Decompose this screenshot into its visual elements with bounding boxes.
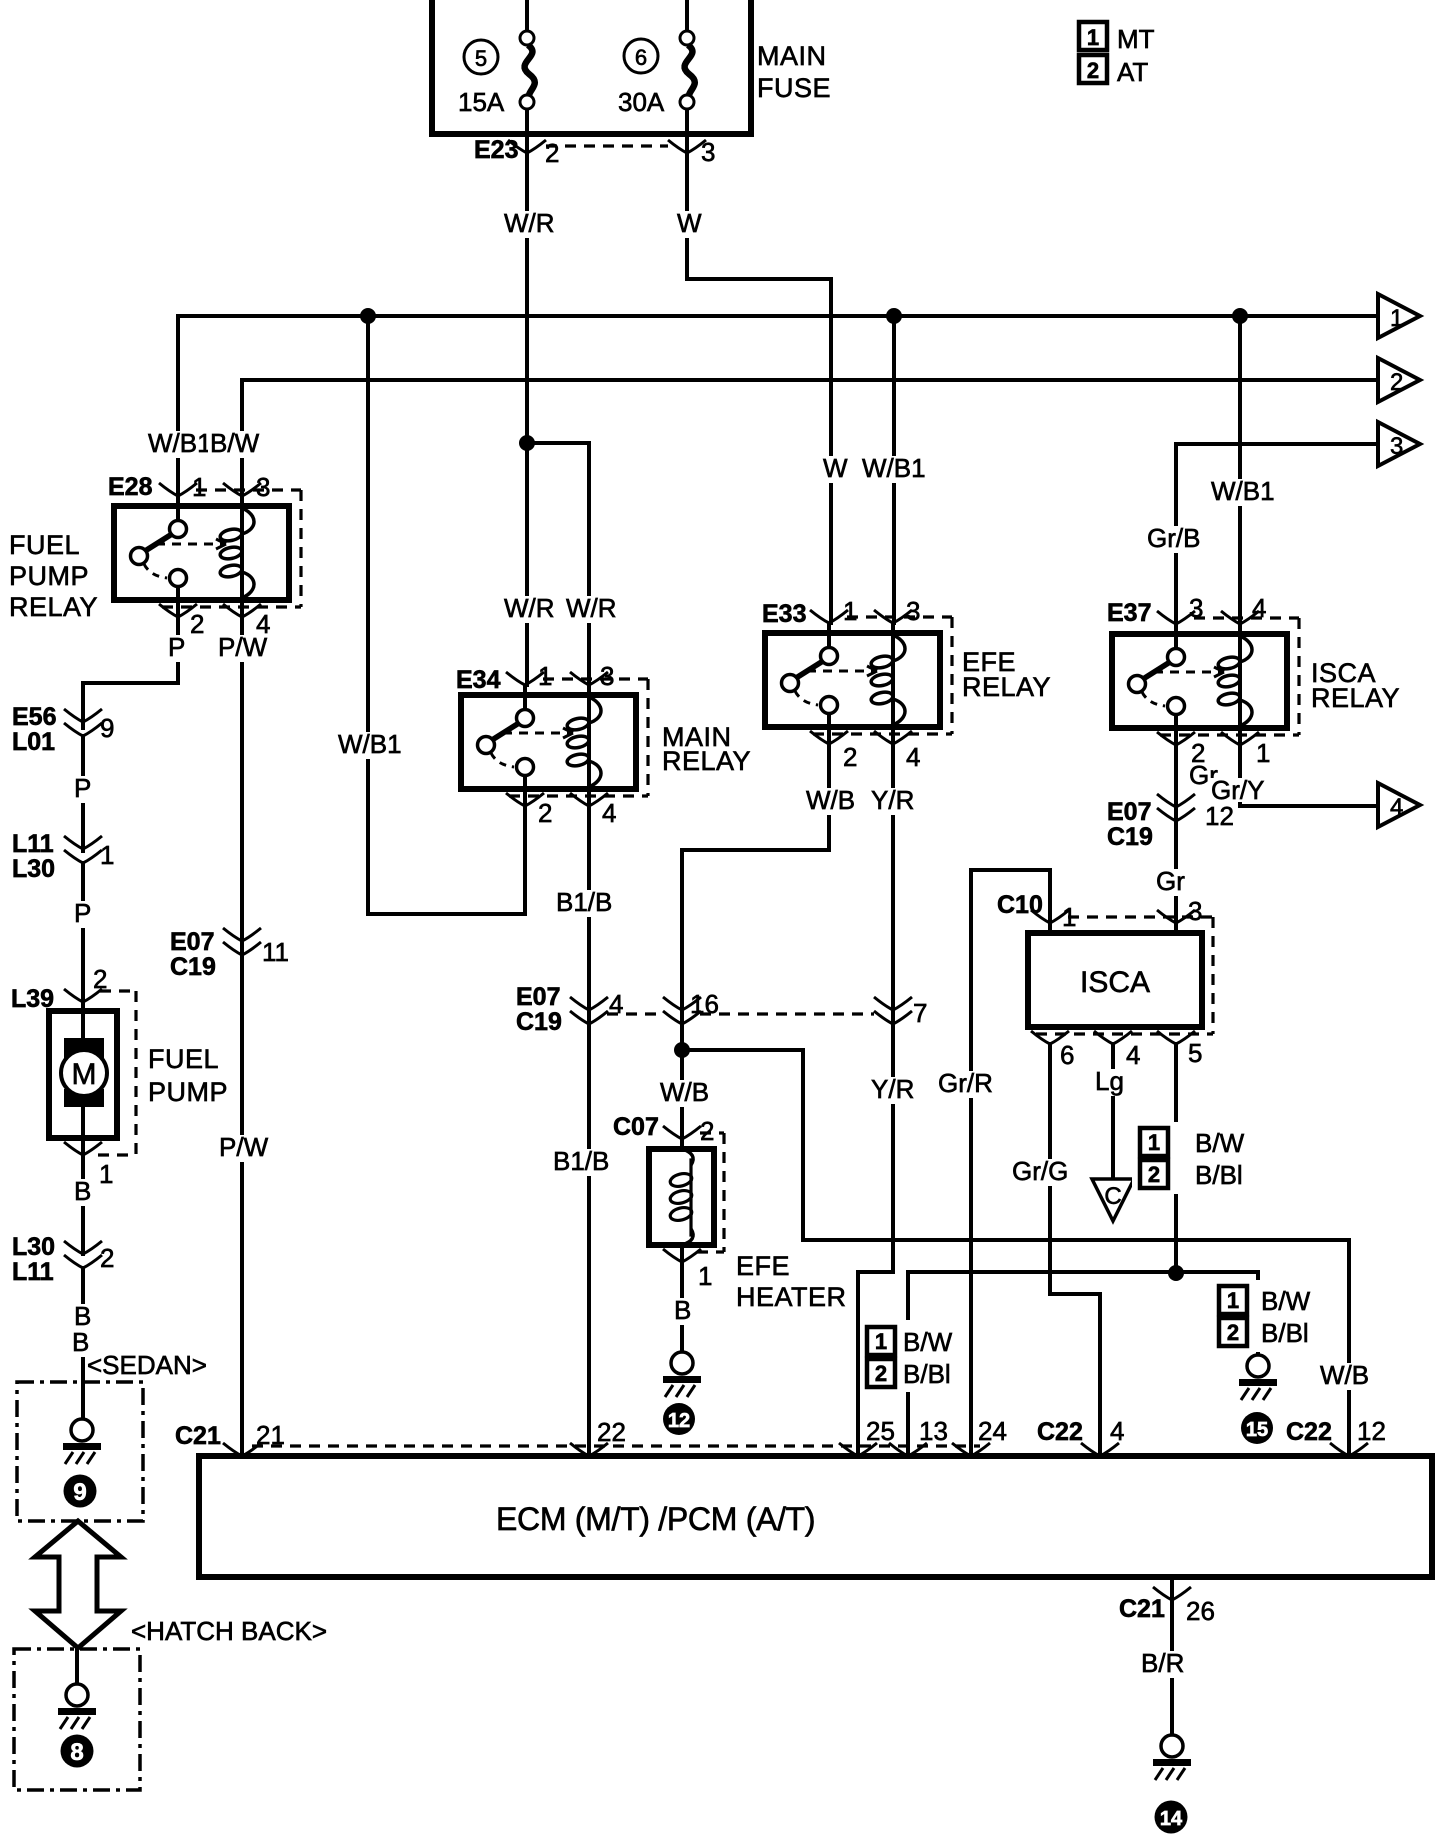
svg-text:1: 1 <box>1227 1288 1239 1313</box>
svg-text:PUMP: PUMP <box>148 1077 228 1107</box>
label block 1 B/W 2 B/Bl at ECM pin 13 <box>860 1320 960 1392</box>
off-page arrow 2 <box>1378 358 1420 402</box>
svg-text:2: 2 <box>545 138 559 168</box>
svg-text:L30: L30 <box>12 855 55 883</box>
svg-text:1: 1 <box>192 472 206 502</box>
svg-text:4: 4 <box>1110 1416 1124 1446</box>
svg-text:W/B1: W/B1 <box>338 729 402 759</box>
wire W/B1 bus1 to main relay pin 2 <box>336 316 525 914</box>
svg-text:E28: E28 <box>108 473 153 501</box>
connector E07 C19 pin 12 <box>1107 794 1234 851</box>
svg-text:15: 15 <box>1246 1419 1268 1441</box>
svg-text:E07: E07 <box>1107 798 1151 826</box>
svg-text:W/R: W/R <box>566 593 617 623</box>
wire B/W B/Bl from ISCA pin 5 to node <box>1174 1044 1178 1274</box>
svg-text:E33: E33 <box>762 600 806 628</box>
svg-text:5: 5 <box>475 46 487 71</box>
svg-text:AT: AT <box>1117 57 1148 87</box>
svg-text:C19: C19 <box>516 1008 562 1036</box>
fuse 5 15A <box>458 31 535 117</box>
node bus1-EFE <box>886 308 902 324</box>
connector L11 L30 pin 1 <box>12 830 114 883</box>
svg-text:15A: 15A <box>458 87 505 117</box>
ground 14 <box>1153 1735 1191 1834</box>
svg-text:B: B <box>674 1295 691 1325</box>
dashed connector line C21/C22 <box>252 1444 980 1447</box>
connector C21 pin 21 <box>175 1420 285 1456</box>
svg-text:W: W <box>823 453 848 483</box>
svg-text:26: 26 <box>1186 1596 1215 1626</box>
off-page arrow 1 <box>1378 294 1420 338</box>
ground 12 <box>663 1352 701 1435</box>
svg-text:<SEDAN>: <SEDAN> <box>87 1350 207 1380</box>
svg-text:C: C <box>1104 1183 1121 1210</box>
svg-text:EFE: EFE <box>736 1251 790 1281</box>
svg-text:W/B: W/B <box>806 785 855 815</box>
legend MT/AT <box>1079 22 1155 87</box>
svg-text:1: 1 <box>1256 738 1270 768</box>
svg-text:2: 2 <box>190 609 204 639</box>
svg-text:2: 2 <box>875 1361 887 1386</box>
wire W/B1 bus1 to EFE relay pin 3 <box>860 316 927 623</box>
node bus1-main relay <box>360 308 376 324</box>
connector C21 pin 13 <box>889 1416 948 1456</box>
svg-text:E56: E56 <box>12 703 56 731</box>
svg-text:1: 1 <box>1390 305 1403 332</box>
svg-text:3: 3 <box>256 472 270 502</box>
svg-text:L30: L30 <box>12 1233 55 1261</box>
svg-text:Gr/G: Gr/G <box>1012 1156 1068 1186</box>
wire W from fuse 6 to EFE relay pin 1 <box>675 110 850 623</box>
svg-text:C07: C07 <box>613 1113 659 1141</box>
svg-text:7: 7 <box>913 998 927 1028</box>
wire P/W from E28 pin 4 to ECM C21-21 <box>216 617 270 1456</box>
svg-text:L11: L11 <box>12 1258 54 1286</box>
wire Gr/Y from E37 pin 1 to arrow 4 <box>1209 745 1378 806</box>
relay E34 main relay <box>456 661 751 828</box>
svg-text:1: 1 <box>99 1159 113 1189</box>
svg-text:8: 8 <box>70 1739 83 1766</box>
svg-text:L11: L11 <box>12 830 54 858</box>
connector L30 L11 pin 2 <box>12 1233 114 1286</box>
svg-text:2: 2 <box>843 742 857 772</box>
svg-text:Gr/B: Gr/B <box>1147 523 1200 553</box>
connector E07 C19 pin 11 <box>170 928 289 981</box>
svg-text:22: 22 <box>597 1417 626 1447</box>
svg-text:B1/B: B1/B <box>553 1146 609 1176</box>
svg-text:1: 1 <box>875 1329 887 1354</box>
relay E33 EFE relay <box>762 596 1051 772</box>
ground 15 <box>1239 1355 1277 1444</box>
svg-text:1: 1 <box>843 596 857 626</box>
svg-text:PUMP: PUMP <box>9 561 89 591</box>
svg-text:30A: 30A <box>618 87 665 117</box>
svg-text:B/W: B/W <box>1195 1128 1245 1158</box>
svg-text:4: 4 <box>602 798 616 828</box>
connector C22 pin 12 <box>1286 1416 1386 1456</box>
svg-text:W/R: W/R <box>504 208 555 238</box>
connector L39 pin 2 <box>11 964 107 1013</box>
svg-text:P/W: P/W <box>218 632 268 662</box>
connector E07 C19 pin 7 <box>874 997 927 1028</box>
svg-text:W/B1: W/B1 <box>148 428 212 458</box>
wire W/R branch to main relay pin 3 <box>502 443 619 685</box>
svg-text:W/B: W/B <box>660 1077 709 1107</box>
svg-text:9: 9 <box>100 713 114 743</box>
wire W/B from E33 pin 2 to EFE heater <box>658 744 857 1149</box>
svg-text:5: 5 <box>1188 1038 1202 1068</box>
ground 9 sedan <box>63 1419 101 1508</box>
svg-text:W/B1: W/B1 <box>862 453 926 483</box>
fuel pump M1 <box>49 991 228 1155</box>
svg-text:B/W: B/W <box>210 428 260 458</box>
wire P from E28 pin 2 <box>83 617 187 728</box>
wire W/R from fuse 5 to main relay pin 1 <box>502 110 557 685</box>
svg-text:B/Bl: B/Bl <box>903 1359 951 1389</box>
relay E37 ISCA relay <box>1107 593 1400 768</box>
svg-text:RELAY: RELAY <box>662 746 751 776</box>
svg-text:B1/B: B1/B <box>556 887 612 917</box>
svg-text:1: 1 <box>698 1261 712 1291</box>
svg-text:MT: MT <box>1117 24 1155 54</box>
connector E23 pin 2 <box>474 136 559 168</box>
svg-text:14: 14 <box>1160 1808 1183 1830</box>
svg-text:25: 25 <box>866 1416 895 1446</box>
svg-text:1: 1 <box>100 840 114 870</box>
svg-text:3: 3 <box>1390 433 1403 460</box>
connector C22 pin 4 <box>1037 1416 1124 1456</box>
svg-text:B/R: B/R <box>1141 1648 1184 1678</box>
svg-text:3: 3 <box>1188 896 1202 926</box>
wire B1/B from E34 pin 4 to ECM C21-22 <box>551 806 614 1456</box>
wire Gr/G from ISCA pin 6 to ECM C22-4 <box>1010 1044 1100 1456</box>
sedan option box <box>17 1350 207 1521</box>
connector C21 pin 26 <box>1119 1587 1215 1626</box>
svg-text:Y/R: Y/R <box>871 1074 914 1104</box>
svg-text:3: 3 <box>701 137 715 167</box>
connector C07 pin 1 <box>663 1249 712 1291</box>
connector E07 C19 pin 16 <box>663 989 719 1024</box>
svg-text:W/B1: W/B1 <box>1211 476 1275 506</box>
svg-text:Y/R: Y/R <box>871 785 914 815</box>
svg-text:3: 3 <box>906 596 920 626</box>
svg-text:MAIN: MAIN <box>757 41 827 71</box>
svg-text:B/W: B/W <box>903 1327 953 1357</box>
svg-text:C19: C19 <box>1107 823 1153 851</box>
off-page arrow 4 <box>1378 783 1420 827</box>
bus wire 3 <box>1145 444 1378 623</box>
svg-text:4: 4 <box>906 742 920 772</box>
wire P to fuel pump <box>72 863 93 1038</box>
connector C10 pin 1 <box>997 891 1076 932</box>
node W/B junction <box>674 1042 690 1058</box>
svg-text:W/B: W/B <box>1320 1360 1369 1390</box>
wire Y/R from E33 pin 4 to ECM pin 25 <box>858 744 916 1456</box>
svg-text:RELAY: RELAY <box>9 592 98 622</box>
connector ISCA pin 5 <box>1157 1031 1202 1068</box>
svg-text:Gr: Gr <box>1156 866 1185 896</box>
dashed connector line E07/C19 <box>607 1012 874 1015</box>
relay E28 fuel pump relay <box>9 472 301 639</box>
wire B to sedan ground <box>70 1268 93 1419</box>
svg-text:9: 9 <box>73 1479 86 1506</box>
svg-text:B/Bl: B/Bl <box>1261 1318 1309 1348</box>
wire B/R from ECM C21-26 to ground 14 <box>1139 1577 1186 1735</box>
wire net pin13 to ground 15 <box>908 1272 1258 1456</box>
svg-text:16: 16 <box>690 989 719 1019</box>
svg-text:3: 3 <box>1189 593 1203 623</box>
svg-text:HEATER: HEATER <box>736 1282 847 1312</box>
svg-text:2: 2 <box>1390 369 1403 396</box>
svg-text:2: 2 <box>538 798 552 828</box>
label block 1 B/W 2 B/Bl at ISCA pin 5 <box>1132 1122 1248 1194</box>
connector E23 pin 3 <box>668 137 715 167</box>
svg-text:6: 6 <box>635 45 647 70</box>
svg-text:ECM (M/T) /PCM (A/T): ECM (M/T) /PCM (A/T) <box>496 1501 815 1537</box>
svg-text:Lg: Lg <box>1095 1066 1124 1096</box>
double arrow sedan/hatchback <box>35 1521 121 1648</box>
bus wire 2 <box>208 380 1378 496</box>
hatch back option box <box>14 1616 327 1790</box>
bus wire 1 <box>146 316 1378 496</box>
svg-text:E34: E34 <box>456 666 501 694</box>
svg-text:<HATCH BACK>: <HATCH BACK> <box>131 1616 327 1646</box>
wire W/B branch to ECM C22-12 <box>682 1050 1371 1456</box>
main fuse box <box>432 0 831 134</box>
EFE heater C07 <box>649 1133 847 1312</box>
svg-text:E37: E37 <box>1107 599 1151 627</box>
svg-text:13: 13 <box>919 1416 948 1446</box>
svg-text:Gr/Y: Gr/Y <box>1211 775 1264 805</box>
svg-text:W/R: W/R <box>504 593 555 623</box>
wire W/B1 bus1 to ISCA relay pin 4 <box>1209 316 1276 623</box>
connector ISCA pin 6 <box>1031 1031 1074 1070</box>
svg-text:P: P <box>168 632 185 662</box>
label block 1 B/W 2 B/Bl at ground 15 <box>1212 1280 1326 1352</box>
ECM box <box>199 1456 1432 1577</box>
svg-text:1: 1 <box>1087 25 1099 50</box>
svg-text:C22: C22 <box>1037 1418 1083 1446</box>
svg-text:RELAY: RELAY <box>1311 683 1400 713</box>
svg-text:2: 2 <box>700 1116 714 1146</box>
connector C21 pin 24 <box>952 1416 1007 1456</box>
svg-text:1: 1 <box>1148 1130 1160 1155</box>
svg-text:21: 21 <box>256 1420 285 1450</box>
node W/R branch <box>519 435 535 451</box>
off-page arrow C <box>1092 1179 1134 1221</box>
svg-text:12: 12 <box>668 1410 690 1432</box>
off-page arrow 3 <box>1378 422 1420 466</box>
wire Gr from E37 pin 2 to ISCA C10-3 <box>1154 745 1218 933</box>
svg-text:B/W: B/W <box>1261 1286 1311 1316</box>
dashed connector line E23 <box>546 144 668 147</box>
svg-text:11: 11 <box>262 937 289 967</box>
ISCA actuator <box>1028 917 1213 1034</box>
svg-text:E23: E23 <box>474 136 518 164</box>
wire Lg from ISCA pin 4 to arrow C <box>1093 1044 1126 1179</box>
svg-text:4: 4 <box>1390 794 1403 821</box>
svg-text:C19: C19 <box>170 953 216 981</box>
svg-text:4: 4 <box>1126 1040 1140 1070</box>
svg-text:RELAY: RELAY <box>962 672 1051 702</box>
svg-text:3: 3 <box>600 661 614 691</box>
svg-text:P/W: P/W <box>219 1132 269 1162</box>
svg-text:C22: C22 <box>1286 1418 1332 1446</box>
svg-text:12: 12 <box>1205 801 1234 831</box>
svg-text:2: 2 <box>1227 1320 1239 1345</box>
svg-text:P: P <box>74 898 91 928</box>
node ISCA5/pin13 <box>1168 1265 1184 1281</box>
svg-text:2: 2 <box>1148 1162 1160 1187</box>
ground 8 hatch back <box>58 1649 96 1768</box>
connector C07 pin 2 <box>613 1113 714 1146</box>
svg-text:C21: C21 <box>175 1422 221 1450</box>
svg-text:W: W <box>677 208 702 238</box>
svg-text:2: 2 <box>100 1243 114 1273</box>
connector C21 pin 22 <box>570 1417 626 1456</box>
svg-text:FUEL: FUEL <box>148 1044 219 1074</box>
svg-text:4: 4 <box>1252 593 1266 623</box>
svg-text:L01: L01 <box>12 728 55 756</box>
svg-text:ISCA: ISCA <box>1080 966 1150 999</box>
svg-text:B/Bl: B/Bl <box>1195 1160 1243 1190</box>
svg-text:E07: E07 <box>170 928 214 956</box>
fuse 6 30A <box>618 31 695 117</box>
svg-text:FUEL: FUEL <box>9 530 80 560</box>
node bus1-ISCA <box>1232 308 1248 324</box>
svg-text:2: 2 <box>1087 58 1099 83</box>
svg-text:Gr/R: Gr/R <box>938 1068 993 1098</box>
wire P to L11/L30 <box>72 736 93 851</box>
svg-text:6: 6 <box>1060 1040 1074 1070</box>
svg-text:FUSE: FUSE <box>757 73 831 103</box>
svg-text:P: P <box>74 773 91 803</box>
wire B to L30/L11 <box>72 1107 93 1254</box>
wire Gr/R from ISCA C10-1 to ECM pin 24 <box>936 870 1050 1456</box>
connector E07 C19 pin 4 <box>516 983 623 1036</box>
connector fuel pump pin 1 <box>64 1142 113 1189</box>
svg-text:1: 1 <box>538 661 552 691</box>
connector E56 L01 pin 9 <box>12 703 114 756</box>
svg-text:B: B <box>74 1176 91 1206</box>
svg-text:12: 12 <box>1357 1416 1386 1446</box>
connector C21 pin 25 <box>839 1416 895 1456</box>
connector C10 pin 3 <box>1157 896 1202 926</box>
svg-text:24: 24 <box>978 1416 1007 1446</box>
svg-text:E07: E07 <box>516 983 560 1011</box>
svg-text:C21: C21 <box>1119 1595 1165 1623</box>
wire B to ground 12 <box>672 1245 693 1352</box>
connector ISCA pin 4 <box>1094 1031 1140 1070</box>
svg-text:M: M <box>72 1058 97 1091</box>
